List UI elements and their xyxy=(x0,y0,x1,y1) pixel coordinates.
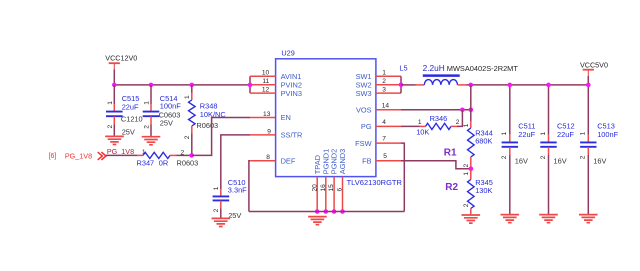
svg-text:25V: 25V xyxy=(160,119,173,128)
node rail junction C511 xyxy=(508,83,513,88)
svg-text:10K: 10K xyxy=(416,127,429,136)
wire SS/TR net xyxy=(221,135,250,189)
svg-text:6: 6 xyxy=(337,188,344,192)
capacitor C512 xyxy=(548,85,550,135)
node SW junction xyxy=(399,82,404,87)
ground under TPAD xyxy=(308,217,327,225)
svg-text:[6]: [6] xyxy=(49,153,57,160)
pin 3 SW3 xyxy=(376,92,401,94)
pin 6 AGND3 xyxy=(342,177,344,212)
svg-text:16V: 16V xyxy=(554,156,567,165)
pin 10 AVIN1 xyxy=(250,75,276,77)
svg-text:R347: R347 xyxy=(137,158,155,167)
node VOS-output junction xyxy=(469,108,474,113)
capacitor C510 xyxy=(220,189,222,196)
pin 12 PVIN3 xyxy=(250,92,276,94)
svg-text:4: 4 xyxy=(382,119,386,126)
ground under C515 xyxy=(105,136,124,144)
svg-text:PG_1V8: PG_1V8 xyxy=(65,152,92,161)
wire input rail VCC12V0 xyxy=(114,84,250,86)
svg-text:1: 1 xyxy=(463,172,470,176)
node GND junction PGND2 xyxy=(332,209,337,214)
wire SW bus vertical xyxy=(400,76,402,93)
svg-text:1: 1 xyxy=(580,132,587,136)
svg-text:8: 8 xyxy=(266,154,270,161)
pin 2 SW2 xyxy=(376,84,401,86)
ground under C513 xyxy=(579,215,598,223)
capacitor C513 xyxy=(587,85,589,135)
svg-text:11: 11 xyxy=(262,78,269,85)
pin 5 FB xyxy=(376,160,401,162)
pin 1 SW1 xyxy=(376,75,401,77)
svg-text:100nF: 100nF xyxy=(597,130,618,139)
svg-text:VCC5V0: VCC5V0 xyxy=(580,60,608,69)
svg-text:2: 2 xyxy=(501,155,508,159)
ground under C514 xyxy=(142,137,161,145)
IC U29 TLV62130RGTR body xyxy=(276,59,376,177)
pin 15 PGND2 xyxy=(333,177,335,212)
svg-text:AGND3: AGND3 xyxy=(338,149,347,174)
wire VCC12V0 stem to input rail xyxy=(113,70,115,85)
svg-text:2: 2 xyxy=(107,125,114,129)
node rail junction C515 xyxy=(112,83,117,88)
wire FB net xyxy=(401,161,471,169)
svg-text:2: 2 xyxy=(540,155,547,159)
svg-text:16V: 16V xyxy=(593,156,606,165)
svg-text:2.2uH: 2.2uH xyxy=(423,63,445,73)
svg-text:SW3: SW3 xyxy=(356,89,372,98)
svg-text:680K: 680K xyxy=(475,136,492,145)
svg-text:25V: 25V xyxy=(122,127,135,136)
svg-text:1: 1 xyxy=(213,186,220,190)
svg-text:1: 1 xyxy=(142,149,146,156)
svg-text:1: 1 xyxy=(418,119,422,126)
wire output vertical to divider xyxy=(470,85,472,121)
wire EN net xyxy=(192,118,250,156)
svg-text:MWSA0402S-2R2MT: MWSA0402S-2R2MT xyxy=(447,64,519,73)
resistor R347 xyxy=(137,154,143,156)
svg-text:TLV62130RGTR: TLV62130RGTR xyxy=(347,178,403,187)
svg-text:1: 1 xyxy=(463,123,470,127)
svg-text:L5: L5 xyxy=(399,64,407,73)
resistor R344 xyxy=(470,121,472,128)
node VOS-R346 junction xyxy=(460,108,465,113)
svg-text:16: 16 xyxy=(320,184,327,192)
svg-text:EN: EN xyxy=(281,113,291,122)
svg-text:100nF: 100nF xyxy=(160,102,181,111)
wire VOS net xyxy=(401,109,471,111)
svg-text:22uF: 22uF xyxy=(518,130,535,139)
svg-text:14: 14 xyxy=(382,103,390,110)
svg-text:2: 2 xyxy=(456,119,460,126)
pin 20 TPAD xyxy=(316,177,318,212)
resistor R346 xyxy=(401,125,420,127)
node GND junction TPAD xyxy=(315,209,320,214)
svg-text:2: 2 xyxy=(382,78,386,85)
node rail junction C512 xyxy=(546,83,551,88)
svg-text:FB: FB xyxy=(362,156,372,165)
pin 4 PG xyxy=(376,125,401,127)
capacitor C515 xyxy=(113,85,115,104)
wire SW to inductor xyxy=(401,84,416,86)
svg-text:3: 3 xyxy=(382,86,386,93)
wire output rail xyxy=(466,84,588,86)
svg-text:PVIN3: PVIN3 xyxy=(281,89,302,98)
svg-text:22uF: 22uF xyxy=(557,130,574,139)
wire R346 to VOS xyxy=(457,110,462,127)
pin 14 VOS xyxy=(376,109,401,111)
svg-text:22uF: 22uF xyxy=(122,102,139,111)
pin 11 PVIN2 xyxy=(250,84,276,86)
node input rail junction xyxy=(248,83,253,88)
svg-text:1: 1 xyxy=(107,101,114,105)
svg-text:1: 1 xyxy=(144,101,151,105)
svg-text:2: 2 xyxy=(144,125,151,129)
svg-text:1: 1 xyxy=(501,132,508,136)
svg-text:R0603: R0603 xyxy=(177,158,199,167)
svg-text:FSW: FSW xyxy=(355,139,371,148)
wire AVIN/PVIN vertical bus xyxy=(249,76,251,93)
wire FSW to ground net xyxy=(401,143,404,211)
wire bottom ground net xyxy=(249,211,404,213)
node rail junction C513 xyxy=(586,83,591,88)
svg-text:VOS: VOS xyxy=(356,105,372,114)
node rail junction R348 xyxy=(190,83,195,88)
node rail junction C514 xyxy=(149,83,154,88)
svg-text:R0603: R0603 xyxy=(196,121,218,130)
svg-text:7: 7 xyxy=(382,136,386,143)
svg-text:C1210: C1210 xyxy=(121,115,143,124)
svg-text:25V: 25V xyxy=(228,211,241,220)
node output junction xyxy=(469,83,474,88)
node PG junction xyxy=(189,153,194,158)
svg-text:2: 2 xyxy=(463,164,470,168)
svg-text:9: 9 xyxy=(267,128,271,135)
svg-text:20: 20 xyxy=(311,184,318,192)
svg-text:12: 12 xyxy=(262,86,270,93)
node GND junction AGND3 xyxy=(340,209,345,214)
wire DEF net xyxy=(249,161,250,212)
svg-text:130K: 130K xyxy=(475,186,492,195)
svg-text:5: 5 xyxy=(383,153,387,160)
svg-text:2: 2 xyxy=(463,203,470,207)
wire PG_1V8 to R347 xyxy=(106,154,137,156)
capacitor C514 xyxy=(150,85,152,104)
capacitor C511 xyxy=(509,85,511,135)
svg-text:1: 1 xyxy=(540,132,547,136)
ground under R345 xyxy=(462,215,481,223)
svg-text:R348: R348 xyxy=(200,101,218,110)
svg-text:13: 13 xyxy=(263,111,271,118)
svg-text:15: 15 xyxy=(328,184,335,192)
ground under C511 xyxy=(501,215,520,223)
svg-text:R1: R1 xyxy=(444,147,457,158)
svg-text:2: 2 xyxy=(213,208,220,212)
svg-text:3.3nF: 3.3nF xyxy=(228,186,247,195)
svg-text:VCC12V0: VCC12V0 xyxy=(105,54,137,63)
svg-text:R2: R2 xyxy=(445,182,458,193)
pin 7 FSW xyxy=(376,142,401,144)
svg-text:2: 2 xyxy=(184,135,191,139)
svg-text:U29: U29 xyxy=(281,49,294,58)
svg-text:0R: 0R xyxy=(159,158,168,167)
wire VCC5V0 stem xyxy=(587,76,589,85)
wire R347 to junction xyxy=(177,154,192,156)
svg-text:1: 1 xyxy=(382,70,386,77)
node FB divider junction xyxy=(469,166,474,171)
svg-text:10: 10 xyxy=(262,70,270,77)
ground under C512 xyxy=(539,215,558,223)
svg-text:1: 1 xyxy=(184,95,191,99)
pin 16 PGND1 xyxy=(325,177,327,212)
svg-text:2: 2 xyxy=(580,155,587,159)
svg-text:PG: PG xyxy=(361,122,372,131)
svg-text:R346: R346 xyxy=(430,114,448,123)
svg-text:16V: 16V xyxy=(515,156,528,165)
resistor R345 xyxy=(470,169,472,180)
svg-text:SS/TR: SS/TR xyxy=(281,131,303,140)
resistor R348 xyxy=(191,85,193,93)
svg-text:DEF: DEF xyxy=(281,156,296,165)
inductor L5 2.2uH xyxy=(416,84,425,86)
node GND junction PGND1 xyxy=(324,209,329,214)
ground under C510 xyxy=(212,218,231,226)
